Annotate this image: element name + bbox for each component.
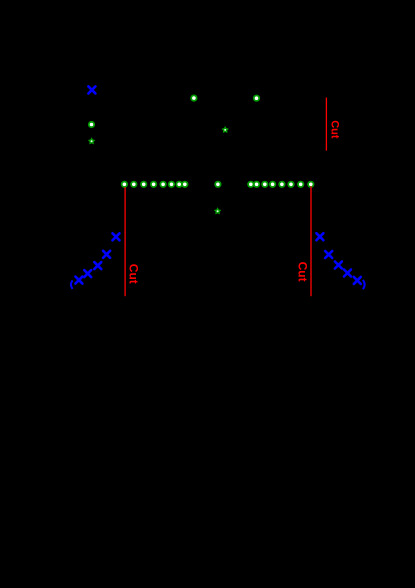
green star point below row middle <box>214 207 221 214</box>
cut line bottom-left <box>124 187 126 296</box>
green circle point upper middle-right <box>253 95 260 102</box>
blue x branch lower-right <box>316 233 360 284</box>
green circle point row middle <box>214 181 221 188</box>
svg-text:Cut: Cut <box>328 120 340 139</box>
green circle point upper middle-left <box>190 95 197 102</box>
green star point upper middle <box>221 126 228 133</box>
svg-text:Cut: Cut <box>296 262 310 282</box>
green circle row right segment <box>247 181 314 188</box>
blue close-paren mark lower-right end <box>363 280 365 289</box>
green circle row left segment <box>121 181 189 188</box>
svg-text:Cut: Cut <box>126 264 140 284</box>
blue open-paren mark lower-left end <box>71 280 73 289</box>
cut line bottom-right <box>310 186 312 296</box>
blue x branch lower-left <box>75 233 119 283</box>
cut line top-right <box>325 98 327 151</box>
blue x point top-left <box>88 86 95 93</box>
green star point left column <box>88 137 95 144</box>
green circle point left column <box>88 121 95 128</box>
